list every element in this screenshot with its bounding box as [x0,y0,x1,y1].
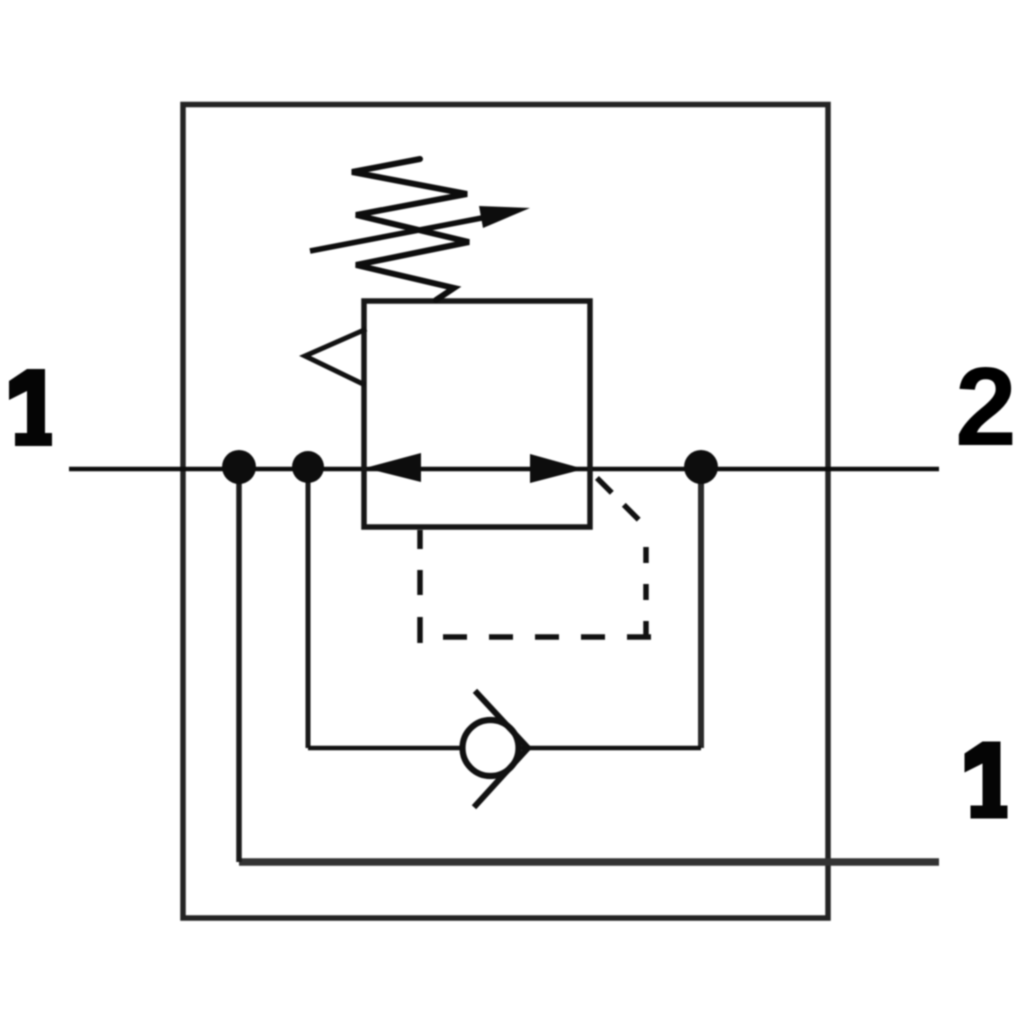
wire: bottom port 1 line [239,858,939,866]
pilot arrowhead left of valve [305,330,364,384]
wire: bypass branch line [308,746,701,751]
wire: drop from node B to bypass branch [306,469,311,748]
pilot dashed diagonal [592,473,646,527]
check valve circle [463,720,519,776]
pilot dashed bottom horizontal [430,634,651,640]
adjustment arrow shaft [310,217,487,251]
flow arrow right (inside valve) [530,454,584,483]
node A junction dot [222,450,256,484]
check valve seat [476,693,528,805]
adjustment arrow head [479,206,530,228]
port label 1 (bottom right) [965,742,1008,819]
wire: drop from node C to bypass branch [698,469,704,748]
port label 1 (left) [9,369,52,446]
pilot dashed left vertical [417,530,423,643]
wire: main line port 1 to port 2 [69,467,939,472]
enclosure box [183,105,828,919]
spring zigzag [352,159,469,300]
wire: drop from node A to bottom line [236,469,242,862]
regulator valve body box [364,301,590,527]
node B junction dot [292,451,324,483]
node C junction dot [684,450,718,484]
pilot dashed right vertical [643,532,649,637]
svg-text:2: 2 [955,345,1017,469]
flow arrow left (inside valve) [365,453,421,482]
